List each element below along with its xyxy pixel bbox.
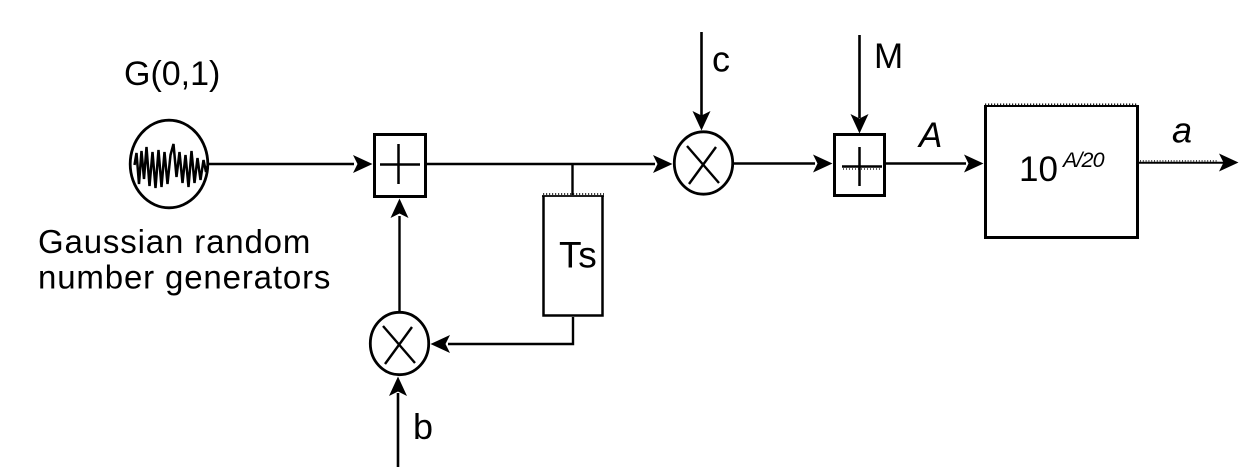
- output arrowhead: [1219, 154, 1239, 172]
- Ts box: [542, 194, 604, 316]
- c input wire: [700, 32, 703, 116]
- multiplier1 circle (upper): [674, 132, 732, 194]
- arrowhead into adder1 bottom (pointing up): [391, 199, 409, 219]
- gain box 10^(A/20): [984, 104, 1139, 237]
- svg-text:c: c: [712, 39, 730, 80]
- arrowhead into multiplier2 (pointing left): [431, 335, 451, 353]
- arrowhead into multiplier2 bottom (pointing up): [389, 377, 407, 397]
- arrowhead into adder2: [813, 155, 833, 173]
- arrowhead into multiplier1 top (pointing down): [693, 111, 711, 131]
- output wire: [1138, 161, 1225, 163]
- wire: Ts down and left to multiplier2: [448, 317, 573, 344]
- arrowhead into adder2 top (pointing down): [851, 114, 869, 134]
- b input wire: [397, 393, 400, 467]
- svg-text:number generators: number generators: [38, 259, 331, 296]
- adder1 box: [375, 135, 426, 197]
- Gaussian noise source circle: [130, 120, 208, 208]
- tap junction wire down to Ts: [571, 164, 573, 195]
- wire: adder2 to gain box: [886, 162, 966, 164]
- arrowhead into adder1: [353, 155, 373, 173]
- wire: adder1 to multiplier1: [427, 163, 655, 165]
- svg-text:A/20: A/20: [1061, 148, 1105, 172]
- multiplier2 X: [383, 326, 415, 364]
- M input wire: [858, 35, 861, 118]
- adder2 box: [835, 135, 885, 196]
- arrowhead into multiplier1: [653, 155, 673, 173]
- noise waveform: [135, 144, 208, 188]
- svg-text:10: 10: [1019, 150, 1058, 189]
- svg-text:Ts: Ts: [559, 235, 598, 276]
- svg-text:a: a: [1172, 110, 1192, 151]
- svg-text:b: b: [413, 406, 433, 447]
- wire: multiplier2 up to adder1: [398, 216, 400, 311]
- multiplier1 X: [687, 146, 719, 184]
- svg-text:A: A: [917, 116, 942, 155]
- wire: source to adder1: [209, 163, 354, 165]
- wire: multiplier1 to adder2: [734, 162, 815, 164]
- svg-text:G(0,1): G(0,1): [124, 55, 220, 93]
- adder1 plus sign: [380, 144, 420, 184]
- arrowhead into gain box: [964, 155, 984, 173]
- svg-text:Gaussian random: Gaussian random: [38, 223, 311, 260]
- adder2 plus sign: [842, 147, 882, 186]
- svg-text:M: M: [874, 37, 903, 76]
- multiplier2 circle (lower): [370, 312, 428, 374]
